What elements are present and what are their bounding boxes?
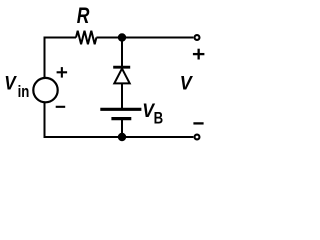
svg-text:B: B [154, 109, 164, 128]
svg-text:V: V [180, 72, 193, 94]
svg-text:in: in [18, 82, 30, 101]
svg-text:V: V [4, 71, 17, 93]
svg-text:R: R [77, 4, 90, 29]
